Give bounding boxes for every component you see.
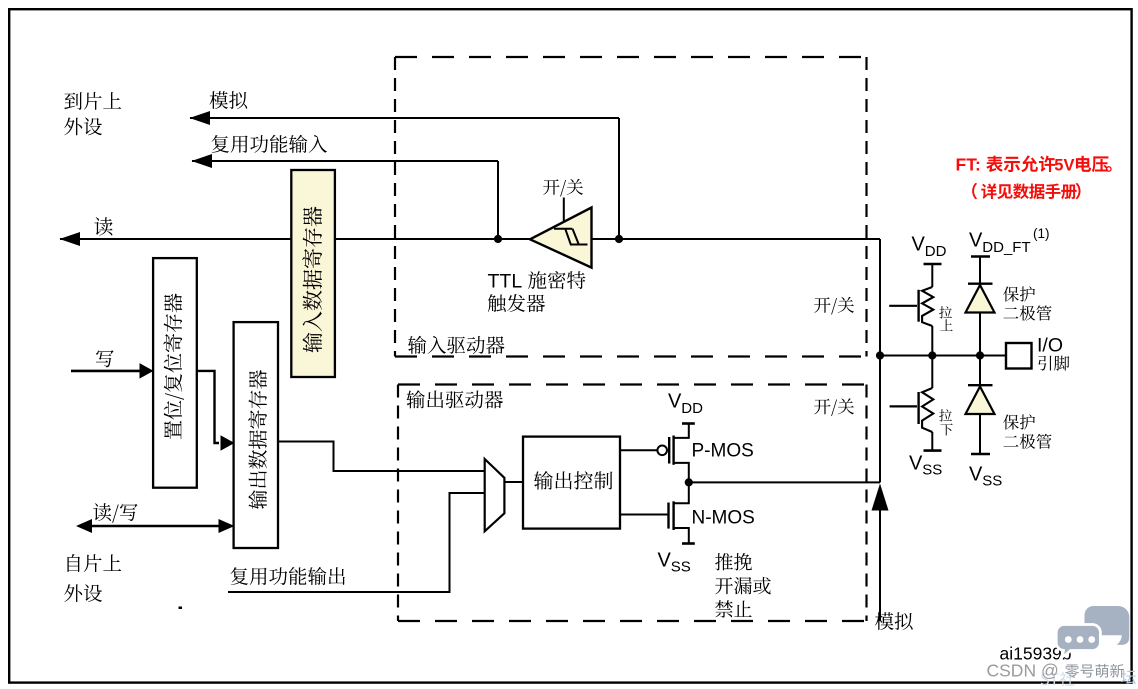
svg-text:DD_FT: DD_FT [982, 239, 1030, 256]
watermark bubble dots [1065, 636, 1072, 643]
label read 读 [94, 217, 112, 235]
wire odr-to-mux [278, 442, 485, 472]
label on/off upper 开/关 [814, 297, 830, 313]
svg-text:V: V [909, 453, 923, 475]
P-MOS source arm [674, 424, 689, 438]
svg-text:V: V [658, 549, 672, 571]
schmitt hysteresis symbol [554, 228, 572, 230]
wire diode-dn bottom [979, 414, 981, 454]
wire diode-dn top [979, 356, 981, 386]
svg-text:FT:: FT: [956, 155, 981, 175]
wire pullup bottom [931, 326, 933, 356]
svg-text:(1): (1) [1033, 226, 1050, 241]
svg-text:V: V [969, 230, 983, 252]
label bit-set-reset 置位/复位寄存器 [163, 294, 184, 440]
input driver dashed box [395, 56, 867, 58]
register bit-set-reset box [153, 258, 197, 488]
wire analog-in [190, 117, 619, 119]
diode upper cathode bar [968, 283, 993, 285]
svg-text:P-MOS: P-MOS [692, 440, 754, 461]
output driver dashed box [398, 383, 867, 385]
wire analog bottom vertical [879, 497, 881, 621]
wire io node [880, 355, 1006, 357]
diode lower triangle [966, 387, 995, 415]
schmitt trigger triangle [530, 208, 592, 268]
watermark faint blue text [1041, 673, 1049, 685]
stray mark [179, 607, 183, 610]
I/O pin box [1006, 343, 1032, 369]
wire diode-up bottom [979, 313, 981, 356]
register input-data-register box [291, 170, 335, 377]
watermark logo big bubble [1085, 606, 1130, 645]
wire pulldown top [931, 356, 933, 389]
diode upper triangle [966, 285, 995, 313]
junction analog/read [615, 235, 623, 243]
label schmitt on/off 开/关 [543, 179, 559, 195]
arrow read [60, 232, 81, 246]
label analog 模拟 [210, 91, 229, 109]
P-MOS gate bubble [657, 446, 667, 456]
VSS bar diode [971, 453, 990, 456]
wire main vertical [879, 239, 881, 482]
svg-text:5V: 5V [1054, 157, 1074, 175]
output control box [523, 437, 620, 529]
wire mos-output [689, 481, 880, 483]
svg-text:V: V [969, 464, 983, 486]
label push-pull 推挽/开漏或/禁止 [715, 553, 733, 570]
junction mos-output [685, 478, 693, 486]
svg-text:DD: DD [681, 400, 703, 417]
arrow read-write right [219, 519, 235, 533]
svg-text:I/O: I/O [1037, 335, 1063, 357]
wire set-reset-to-odr [197, 371, 219, 443]
pull-up gate [889, 305, 917, 307]
arrow alt-func-input [192, 154, 213, 168]
label output-control 输出控制 [534, 471, 553, 490]
svg-text:SS: SS [982, 473, 1002, 490]
VDD_FT bar [971, 255, 990, 258]
wire diode-up top [979, 257, 981, 284]
arrow set-reset-to-odr [221, 435, 235, 451]
label to-on-chip-peripheral 到片上外设 [64, 92, 82, 110]
label read-write 读/写 [93, 503, 111, 521]
wire mux-to-control [504, 481, 523, 483]
label pull-up 拉上 [939, 306, 952, 318]
diode lower cathode bar [968, 384, 993, 386]
label output-data-register 输出数据寄存器 [248, 370, 267, 509]
schmitt trigger on/off control line [563, 198, 565, 222]
svg-text:SS: SS [671, 558, 691, 575]
arrow write [140, 363, 154, 379]
svg-text:TTL: TTL [488, 271, 523, 293]
junction node-diode [976, 351, 984, 359]
watermark small bubble [1056, 625, 1100, 658]
N-MOS source arm [674, 528, 689, 544]
arrow read-write left [76, 519, 92, 533]
svg-text:CSDN @: CSDN @ [987, 661, 1059, 681]
P-MOS channel bar [672, 436, 674, 465]
svg-text:V: V [668, 391, 682, 413]
arrow analog-up [872, 484, 889, 511]
VSS bar nmos [682, 542, 695, 545]
junction node-main [876, 351, 884, 359]
N-MOS channel bar [672, 501, 674, 530]
pull-up resistor zigzag [922, 287, 933, 326]
VDD bar pull-up [924, 263, 942, 266]
junction alt-func-input/read [494, 235, 502, 243]
label input-driver 输入驱动器 [408, 336, 426, 354]
wire read-write [86, 525, 225, 527]
wire control-to-nmos-gate [620, 514, 669, 516]
mux trapezoid [485, 459, 505, 531]
pull-down gate [890, 405, 917, 407]
wire write [71, 370, 141, 373]
label write 写 [96, 350, 114, 367]
label TTL schmitt line2 [488, 294, 506, 312]
label alt-func-output 复用功能输出 [231, 567, 248, 585]
label pull-down 拉下 [939, 409, 952, 421]
label protection-diode lower 保护二极管 [1003, 414, 1019, 429]
VSS bar pull-down [924, 449, 942, 452]
VDD bar pmos [682, 422, 695, 425]
label on/off lower 开/关 [814, 399, 830, 415]
wire read [60, 238, 880, 240]
wire pullup top [931, 264, 933, 287]
svg-text:SS: SS [922, 462, 942, 479]
label alt-func-input 复用功能输入 [212, 135, 229, 153]
label from-on-chip-peripheral 自片上外设 [67, 554, 80, 572]
wire alt-func-input [192, 160, 498, 162]
P-MOS gate bar [668, 437, 670, 464]
svg-text:DD: DD [925, 243, 947, 260]
P-MOS drain arm [674, 463, 689, 483]
svg-text:N-MOS: N-MOS [692, 507, 755, 528]
junction node-pullup [928, 351, 936, 359]
wire pulldown bottom [931, 432, 933, 451]
pull-down resistor zigzag [922, 388, 933, 432]
N-MOS drain arm [674, 482, 689, 503]
register output-data-register box [234, 322, 278, 548]
N-MOS gate bar [667, 503, 669, 529]
label analog bottom 模拟 [875, 612, 894, 630]
wire control-to-pmos-gate [620, 449, 657, 451]
label input-data-register 输入数据寄存器 [302, 207, 322, 353]
wire alt-func-output [228, 493, 485, 592]
label output-driver 输出驱动器 [406, 390, 424, 408]
svg-text:V: V [912, 234, 926, 256]
label protection-diode upper 保护二极管 [1003, 286, 1019, 301]
note FT red line2 [972, 183, 977, 199]
arrow analog-in [190, 111, 211, 125]
